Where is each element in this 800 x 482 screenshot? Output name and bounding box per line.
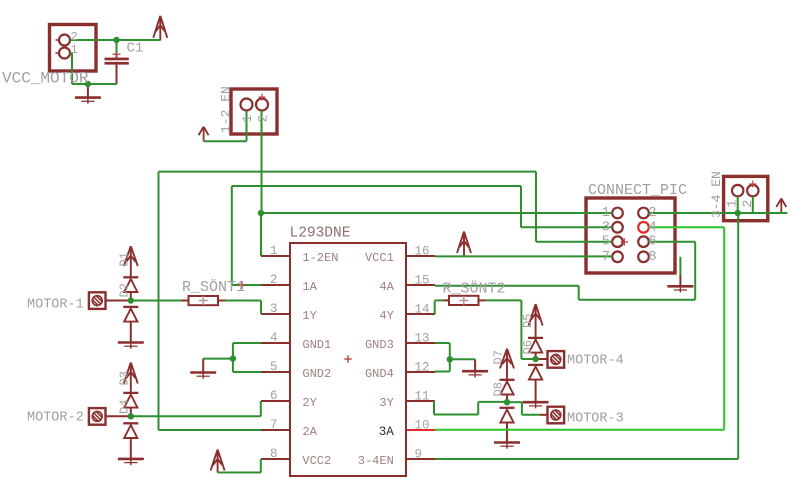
svg-text:3-4EN: 3-4EN — [358, 454, 394, 468]
svg-text:D1: D1 — [118, 252, 132, 266]
svg-text:VCC_MOTOR: VCC_MOTOR — [2, 70, 89, 88]
svg-text:2: 2 — [270, 273, 278, 287]
svg-text:GND3: GND3 — [365, 338, 394, 352]
svg-text:GND4: GND4 — [365, 367, 394, 381]
svg-text:CONNECT_PIC: CONNECT_PIC — [588, 182, 687, 199]
svg-text:2: 2 — [256, 115, 271, 123]
svg-text:6: 6 — [270, 389, 278, 403]
svg-text:3-4 EN: 3-4 EN — [709, 171, 724, 218]
svg-text:8: 8 — [648, 249, 656, 265]
svg-text:D7: D7 — [492, 350, 506, 364]
svg-text:5: 5 — [270, 360, 278, 374]
svg-text:4: 4 — [270, 331, 278, 345]
svg-text:D5: D5 — [521, 314, 535, 328]
svg-text:2: 2 — [740, 200, 755, 208]
svg-text:2: 2 — [71, 30, 78, 44]
svg-text:13: 13 — [415, 332, 430, 346]
svg-text:D4: D4 — [118, 400, 132, 414]
svg-text:1-2 EN: 1-2 EN — [219, 86, 234, 133]
svg-text:10: 10 — [415, 419, 430, 433]
svg-text:C1: C1 — [127, 41, 144, 57]
svg-text:14: 14 — [415, 303, 430, 317]
svg-text:VCC2: VCC2 — [302, 454, 331, 468]
svg-text:MOTOR-3: MOTOR-3 — [567, 412, 624, 427]
svg-text:VCC1: VCC1 — [365, 251, 394, 265]
svg-text:3Y: 3Y — [379, 396, 393, 410]
svg-text:2A: 2A — [302, 425, 317, 439]
svg-text:16: 16 — [415, 245, 430, 259]
svg-text:11: 11 — [415, 390, 430, 404]
svg-text:5: 5 — [602, 234, 610, 250]
svg-text:MOTOR-2: MOTOR-2 — [27, 411, 84, 426]
svg-text:L293DNE: L293DNE — [290, 226, 351, 242]
svg-text:MOTOR-4: MOTOR-4 — [567, 354, 624, 369]
svg-text:R_SÖNT2: R_SÖNT2 — [443, 280, 506, 298]
svg-text:12: 12 — [415, 361, 430, 375]
svg-text:15: 15 — [415, 274, 430, 288]
svg-text:1Y: 1Y — [302, 309, 316, 323]
svg-text:1: 1 — [240, 115, 255, 123]
svg-text:MOTOR-1: MOTOR-1 — [27, 298, 84, 313]
svg-text:D2: D2 — [118, 283, 132, 297]
svg-text:9: 9 — [415, 448, 423, 462]
svg-text:7: 7 — [270, 418, 278, 432]
svg-text:1: 1 — [725, 200, 740, 208]
svg-text:D8: D8 — [492, 382, 506, 396]
svg-text:GND2: GND2 — [302, 367, 331, 381]
svg-text:GND1: GND1 — [302, 338, 331, 352]
svg-text:7: 7 — [602, 249, 610, 265]
svg-text:3A: 3A — [379, 425, 395, 439]
svg-text:D3: D3 — [118, 371, 132, 385]
svg-text:R_SÖNT1: R_SÖNT1 — [182, 278, 245, 296]
svg-text:2Y: 2Y — [302, 396, 316, 410]
svg-text:1-2EN: 1-2EN — [302, 251, 338, 265]
svg-text:1: 1 — [270, 244, 278, 258]
svg-text:D6: D6 — [521, 340, 535, 354]
svg-text:6: 6 — [648, 234, 656, 250]
svg-text:4Y: 4Y — [379, 309, 393, 323]
svg-text:1: 1 — [71, 43, 78, 57]
svg-text:1A: 1A — [302, 280, 317, 294]
svg-text:3: 3 — [270, 302, 278, 316]
svg-text:4A: 4A — [379, 280, 394, 294]
svg-text:8: 8 — [270, 447, 278, 461]
